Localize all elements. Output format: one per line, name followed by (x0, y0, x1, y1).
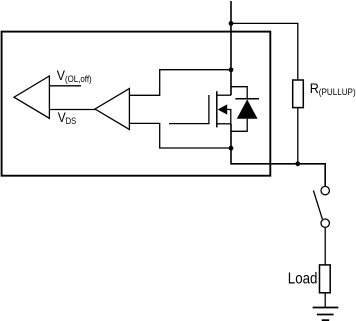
switch S1 top contact (321, 186, 329, 194)
resistor R(PULLUP) body (293, 80, 304, 108)
svg-text:Load: Load (288, 271, 318, 288)
node top junction (229, 21, 234, 26)
wire body diode bottom elbow (231, 119, 247, 132)
resistor Load body (320, 265, 331, 293)
wire supply to pullup (231, 23, 298, 80)
ground bar 2 (317, 314, 334, 316)
wire drain bus upper (230, 1, 232, 95)
switch S1 bottom contact (321, 219, 329, 227)
diode D1 cathode bar (235, 98, 259, 100)
ground bar 3 (322, 319, 330, 321)
wire load to ground (324, 293, 326, 308)
op-amp U1 (V(OL,off) comparator) (14, 76, 49, 118)
node output junction (295, 161, 300, 166)
svg-text:VDS: VDS (58, 109, 77, 126)
wire gate lead of Q1 (169, 95, 209, 124)
svg-text:V(OL,off): V(OL,off) (57, 67, 92, 84)
node source junction (229, 146, 234, 151)
diode D1 triangle (237, 99, 258, 118)
wire Q1 drain stub (217, 94, 231, 96)
op-amp U2 (VDS sense amplifier) (95, 89, 129, 130)
wire Q1 source stub (217, 123, 231, 125)
node drain junction (229, 67, 234, 72)
wire VDS sense (U2 output to U1 input) (49, 109, 96, 111)
wire drain bus lower and output (231, 124, 325, 187)
wire V(OL,off) reference input stub (49, 85, 81, 87)
wire U2 drain sense input (129, 70, 231, 96)
svg-text:R(PULLUP): R(PULLUP) (310, 80, 356, 97)
IC outer box (2, 32, 271, 176)
wire U2 source sense input (129, 123, 231, 148)
wire Q1 body to source (227, 110, 231, 124)
wire switch to load (324, 227, 326, 265)
transistor Q1 body arrow (218, 104, 228, 114)
switch S1 blade (313, 191, 322, 220)
ground bar 1 (313, 307, 339, 309)
wire body diode top elbow (231, 87, 247, 99)
wire pullup to output node (297, 108, 299, 164)
transistor Q1 channel bar (216, 91, 218, 127)
